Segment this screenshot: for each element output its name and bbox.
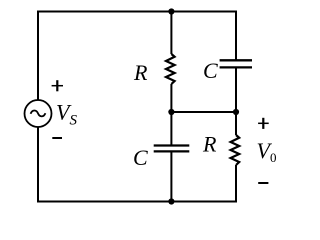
resistor R1 (top middle zigzag) <box>166 54 175 84</box>
source VS (AC source circle with sine) <box>25 100 52 127</box>
wire bottom horizontal <box>37 201 237 203</box>
svg-text:V0: V0 <box>257 138 277 165</box>
svg-text:R: R <box>133 60 148 85</box>
node A junction dot on top wire <box>168 8 174 14</box>
svg-text:VS: VS <box>56 100 77 129</box>
svg-text:C: C <box>133 145 148 170</box>
plus sign of source VS <box>52 80 63 91</box>
wire top of capacitor C2 from middle node <box>170 112 172 145</box>
wire top of resistor R1 <box>170 12 172 55</box>
resistor R2 (bottom right zigzag) <box>231 135 240 165</box>
wire bottom of resistor R1 to middle node <box>170 84 172 112</box>
wire top horizontal from source to C branch <box>37 11 237 13</box>
node D junction dot on bottom wire <box>168 198 174 204</box>
wire left vertical lower (source bottom lead) <box>37 127 39 203</box>
wire bottom of capacitor C2 to bottom wire <box>170 151 172 201</box>
svg-text:R: R <box>202 131 217 156</box>
minus sign of source VS <box>52 137 62 139</box>
wire left vertical upper (source top lead) <box>37 11 39 100</box>
capacitor C1 (top right plates) <box>220 60 252 67</box>
wire bottom of capacitor C1 to middle node <box>235 67 237 112</box>
plus sign of output V0 <box>258 118 269 129</box>
wire bottom of resistor R2 to bottom wire <box>235 165 237 203</box>
node C junction dot right end of middle wire <box>233 109 239 115</box>
minus sign of output V0 <box>258 182 268 184</box>
wire top of capacitor C1 (right branch) <box>235 11 237 61</box>
node B junction dot left end of middle wire <box>168 109 174 115</box>
wire top of resistor R2 from middle node <box>235 112 237 135</box>
capacitor C2 (bottom middle plates) <box>154 146 190 152</box>
wire middle horizontal <box>171 111 236 113</box>
svg-text:C: C <box>203 58 218 83</box>
